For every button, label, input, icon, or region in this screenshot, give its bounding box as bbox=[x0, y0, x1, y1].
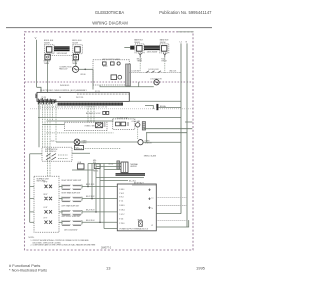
broil left lower terminal label bbox=[44, 61, 50, 65]
svg-text:4 Y-4: 4 Y-4 bbox=[119, 200, 123, 202]
bake right terminal square bbox=[161, 46, 167, 52]
surface switch box title bbox=[37, 177, 49, 182]
relay box small A bbox=[103, 111, 106, 114]
svg-text:1 2 3 4 5 6 7 8 9 10 11 12 13: 1 2 3 4 5 6 7 8 9 10 11 12 13 14 15 16 1… bbox=[38, 107, 107, 109]
dashed chassis border bbox=[25, 32, 194, 250]
svg-text:2600W: 2600W bbox=[134, 42, 140, 44]
row 1 left stub bbox=[30, 186, 34, 188]
row 2 element coil lower bbox=[62, 201, 81, 202]
bake right Y terminal bbox=[163, 53, 166, 58]
bake left Y terminal bbox=[139, 53, 142, 58]
row 1 feed wire bbox=[59, 186, 62, 188]
svg-text:BK-22 R-32: BK-22 R-32 bbox=[86, 196, 94, 198]
svg-text:LF 8": LF 8" bbox=[44, 217, 48, 219]
dashed wire row bbox=[30, 108, 193, 110]
broil lower wire dashed bbox=[48, 55, 73, 57]
svg-text:6 OR-6: 6 OR-6 bbox=[119, 209, 125, 211]
svg-text:N.O. COM N.C.: N.O. COM N.C. bbox=[45, 151, 57, 153]
clock connector bar P1 bbox=[126, 64, 131, 86]
svg-text:BK-1 W-2: BK-1 W-2 bbox=[129, 181, 136, 183]
header rule bbox=[6, 27, 212, 29]
svg-text:OVEN LT SW: OVEN LT SW bbox=[84, 125, 95, 127]
row 1 out wire bbox=[82, 186, 117, 188]
wire drop g bbox=[55, 102, 57, 142]
oven sensor label bbox=[145, 140, 153, 144]
top right solid border segment bbox=[178, 31, 194, 33]
TOD thermal switch bbox=[75, 146, 84, 150]
door switch title bbox=[45, 149, 58, 153]
door lock switch line bbox=[129, 72, 181, 74]
svg-text:LEFT FRONT SURF UNIT: LEFT FRONT SURF UNIT bbox=[62, 216, 81, 218]
wire door sw solid bbox=[72, 152, 90, 154]
terminal symbols column bbox=[148, 189, 150, 210]
wire to MDL bbox=[72, 169, 94, 171]
svg-text:BK W R BU Y: BK W R BU Y bbox=[134, 182, 145, 184]
oven lamp label bbox=[82, 140, 88, 144]
terminal strip label bbox=[96, 177, 144, 179]
broil left terminal block (dashed) bbox=[45, 45, 55, 54]
surface switch dashed box bbox=[34, 176, 59, 232]
wire tb dashed 3 bbox=[156, 219, 188, 221]
svg-text:UNLOCK: UNLOCK bbox=[169, 71, 177, 73]
junction row 3 bbox=[95, 211, 97, 213]
bake feed connector (dark) bbox=[130, 46, 134, 50]
svg-text:3 R-3: 3 R-3 bbox=[119, 197, 123, 199]
wire P2 branch bbox=[145, 106, 153, 110]
svg-text:7 GY-7: 7 GY-7 bbox=[119, 214, 124, 216]
wire bottom collector bbox=[104, 228, 117, 230]
door switch contact 1 bbox=[46, 154, 56, 157]
row 3 out wire bbox=[82, 211, 117, 213]
row 4 element coil lower bbox=[62, 224, 81, 225]
svg-text:V: V bbox=[35, 36, 37, 40]
svg-text:P8: P8 bbox=[59, 97, 61, 99]
terminal strip dark bar bbox=[116, 173, 146, 176]
door switch dashed box bbox=[42, 147, 72, 161]
wire rail 4 bbox=[146, 132, 187, 134]
svg-text:BK-24 R-34: BK-24 R-34 bbox=[86, 220, 94, 222]
wire sensor to L2 bbox=[143, 141, 181, 143]
broil right lower terminal label bbox=[72, 61, 78, 65]
wire L2 vertical bbox=[180, 43, 182, 213]
wire riser 2 bbox=[91, 164, 93, 199]
svg-text:3400W: 3400W bbox=[44, 42, 50, 44]
clock lower coil bbox=[118, 75, 122, 79]
row 1 element coil lower bbox=[62, 188, 81, 189]
TOD2 vertical box bbox=[121, 162, 128, 173]
box A switch rect bbox=[96, 123, 106, 128]
terminal block top comb bbox=[133, 184, 155, 186]
broil left lower terminal bbox=[45, 54, 50, 59]
TOD2 label bbox=[130, 163, 138, 168]
svg-text:304577-2: 304577-2 bbox=[101, 246, 112, 249]
broil left terminal square bbox=[46, 47, 52, 53]
svg-text:* Non-Illustrated Parts: * Non-Illustrated Parts bbox=[9, 268, 47, 273]
svg-text:NOTE:: NOTE: bbox=[29, 237, 35, 239]
fuse box with X bbox=[138, 219, 143, 226]
bake feed wire bbox=[124, 47, 130, 49]
row 4 split stubs bbox=[62, 220, 82, 224]
door switch contact 2 bbox=[46, 157, 56, 160]
wire bake left drop bbox=[139, 58, 141, 73]
bake element heating bar bbox=[144, 46, 160, 51]
relay box small B bbox=[106, 111, 109, 114]
svg-text:ELECTRONIC OVEN CONTROL (EOC): ELECTRONIC OVEN CONTROL (EOC) ASSEMBLY bbox=[40, 89, 87, 92]
svg-text:RR 8": RR 8" bbox=[44, 194, 49, 196]
cool fan circle bbox=[132, 120, 141, 127]
wire main rail 2 bbox=[47, 120, 114, 122]
svg-text:HI-LIMIT STAT: HI-LIMIT STAT bbox=[117, 116, 128, 119]
convection fan motor bbox=[72, 66, 78, 72]
svg-text:L2: L2 bbox=[180, 41, 183, 43]
relay RL3 bbox=[116, 122, 121, 126]
row 2 split stubs bbox=[62, 197, 82, 201]
svg-text:WIRING DIAGRAM: WIRING DIAGRAM bbox=[92, 21, 128, 26]
clock relay K1 bbox=[103, 62, 107, 65]
left bus vertical bbox=[29, 154, 31, 223]
svg-text:RIGHT FRONT SURF UNIT: RIGHT FRONT SURF UNIT bbox=[62, 180, 82, 182]
wire tb solid L2 bbox=[156, 213, 181, 215]
wire clock drop bbox=[92, 69, 94, 89]
wire riser 3 bbox=[95, 164, 97, 212]
svg-text:BK-21 R-31: BK-21 R-31 bbox=[86, 184, 94, 186]
svg-text:RF 8": RF 8" bbox=[44, 182, 48, 184]
junction dot bbox=[84, 69, 86, 71]
svg-text:P4 P2 P6: P4 P2 P6 bbox=[76, 97, 83, 99]
cool fan connector bbox=[142, 122, 145, 130]
convection fan label bbox=[59, 66, 72, 70]
row 2 feed wire bbox=[59, 198, 62, 200]
wire tb solid N bbox=[156, 220, 188, 227]
svg-text:LATCH SWITCH ASM: LATCH SWITCH ASM bbox=[102, 58, 120, 61]
relay dashed box B bbox=[113, 119, 135, 129]
row 4 out wire bbox=[82, 221, 117, 223]
row 3 element coil upper bbox=[62, 210, 81, 211]
broil right terminal block (dashed) bbox=[73, 45, 83, 54]
section divider dashed bbox=[25, 81, 194, 83]
svg-text:TERM: TERM bbox=[44, 63, 50, 65]
svg-text:LOCK SW: LOCK SW bbox=[132, 71, 140, 73]
svg-text:2 W-2: 2 W-2 bbox=[119, 193, 124, 195]
svg-text:5 BU-5: 5 BU-5 bbox=[119, 205, 124, 207]
wire riser 1 bbox=[87, 164, 89, 187]
wire drop f bbox=[52, 102, 54, 121]
svg-text:K1 K2: K1 K2 bbox=[103, 66, 107, 68]
surface switch SW3 contacts bbox=[45, 210, 53, 213]
relay contacts mark bbox=[127, 123, 129, 125]
wire V elbow bbox=[37, 87, 41, 92]
surface switch SW1 contacts bbox=[45, 185, 53, 188]
junction row 2 bbox=[91, 198, 93, 200]
wire EOC corner right bbox=[129, 100, 181, 102]
relay box C bbox=[78, 162, 85, 169]
broil element left terminal label bbox=[44, 40, 54, 44]
left bus top wire bbox=[30, 153, 42, 155]
wire C drop bbox=[146, 133, 148, 143]
bake left terminal block (dashed) bbox=[135, 44, 144, 53]
svg-text:LIMITER: LIMITER bbox=[130, 166, 137, 168]
svg-text:LR 8": LR 8" bbox=[44, 207, 48, 209]
EOC left edge connector bbox=[36, 94, 37, 98]
surface switch SW2 contacts bbox=[45, 197, 53, 200]
EOC top dotted strip bbox=[77, 93, 129, 95]
svg-text:Publication No. 5995441147: Publication No. 5995441147 bbox=[159, 10, 212, 15]
bake right terminal block (dashed) bbox=[160, 44, 169, 53]
junction row 1 bbox=[87, 186, 89, 188]
connector bar into thermal limiter bbox=[109, 161, 120, 169]
oven sensor bbox=[138, 140, 143, 145]
svg-text:LIGHT: LIGHT bbox=[82, 143, 87, 145]
svg-text:2600W: 2600W bbox=[160, 42, 166, 44]
wire tb dashed 1 bbox=[156, 197, 187, 199]
svg-text:SENSOR: SENSOR bbox=[145, 143, 153, 145]
svg-text:GLEB30T8CBA: GLEB30T8CBA bbox=[95, 10, 125, 15]
wire border stub bbox=[185, 121, 192, 123]
wire V vertical bbox=[36, 40, 38, 88]
svg-text:G-44: G-44 bbox=[51, 141, 55, 143]
row 4 left stub bbox=[30, 221, 34, 223]
wire riser 5 bbox=[103, 164, 105, 229]
row 3 feed wire bbox=[59, 211, 62, 213]
svg-text:BK-23 R-33: BK-23 R-33 bbox=[86, 209, 94, 211]
row 3 left stub bbox=[30, 211, 34, 213]
svg-text:N: N bbox=[152, 208, 154, 210]
bake left terminal square bbox=[137, 46, 143, 52]
connector strip P1 (dense dark) bbox=[58, 103, 124, 106]
clock lower relay bbox=[111, 75, 117, 80]
svg-text:L1: L1 bbox=[152, 197, 154, 199]
row 3 split stubs bbox=[62, 210, 82, 214]
wire motor riser bbox=[138, 82, 140, 87]
relay RL4 bbox=[121, 122, 126, 126]
wire drop b bbox=[42, 102, 44, 147]
svg-text:RIGHT REAR SURF UNIT: RIGHT REAR SURF UNIT bbox=[62, 192, 81, 195]
clock relay K2 bbox=[111, 62, 115, 65]
door lock switch contacts bbox=[146, 71, 161, 73]
svg-text:FAN 120V: FAN 120V bbox=[59, 68, 68, 71]
svg-text:TERM: TERM bbox=[72, 63, 78, 65]
wire bend top 3 bbox=[104, 169, 121, 171]
svg-text:P7 P1: P7 P1 bbox=[95, 91, 100, 93]
svg-text:N: N bbox=[186, 41, 188, 43]
wire riser 4 bbox=[99, 164, 101, 223]
wire broil lower drop bbox=[47, 60, 49, 93]
row 1 element coil upper bbox=[62, 185, 81, 186]
wire broil right drop to fan bbox=[75, 60, 77, 66]
broil element heating bar bbox=[54, 46, 70, 51]
surface switch SW4 contacts bbox=[45, 221, 53, 224]
svg-text:POWER SUPPLY TERMINAL BLOCK: POWER SUPPLY TERMINAL BLOCK bbox=[120, 228, 149, 231]
broil right terminal square bbox=[75, 47, 81, 53]
broil right lower terminal bbox=[73, 54, 78, 59]
junction row 4 bbox=[99, 222, 101, 224]
row 2 out wire bbox=[82, 198, 117, 200]
svg-text:TERM: TERM bbox=[161, 61, 167, 63]
dotted rail under box A bbox=[47, 132, 114, 134]
door switch wire stubs bbox=[58, 155, 68, 159]
wire drop d bbox=[47, 102, 49, 176]
wire fan to clock bbox=[79, 68, 93, 70]
wire rail 3 bbox=[144, 128, 193, 130]
bake right terminal text bbox=[161, 58, 167, 62]
op board: electronic oven control box U1 bbox=[37, 92, 129, 101]
svg-text:LEFT REAR SURF UNIT: LEFT REAR SURF UNIT bbox=[62, 205, 80, 208]
bake element right terminal label bbox=[160, 39, 169, 44]
wire door sw dotted bbox=[74, 148, 121, 150]
MDL box bbox=[94, 164, 100, 169]
wire drop j bbox=[93, 106, 95, 122]
wire drop i bbox=[90, 106, 92, 122]
row 4 element coil upper bbox=[62, 220, 81, 221]
row 3 element coil lower bbox=[62, 214, 81, 215]
P2 connector mark bbox=[156, 104, 158, 110]
svg-text:2. COMPONENTS ARE ON THE UPPER: 2. COMPONENTS ARE ON THE UPPER CONSOLE I… bbox=[31, 244, 97, 247]
oven light dashed box A bbox=[65, 122, 108, 130]
wire N vertical bbox=[186, 43, 188, 227]
terminal block box bbox=[117, 184, 156, 231]
wire drop c bbox=[44, 102, 46, 147]
wire tb dashed 2 bbox=[156, 205, 187, 207]
svg-text:TERM: TERM bbox=[137, 61, 143, 63]
wire main rail 1 bbox=[38, 117, 181, 119]
svg-text:L2: L2 bbox=[151, 225, 153, 227]
EOC pin barcode cluster bbox=[38, 98, 56, 104]
svg-text:OR-30: OR-30 bbox=[80, 74, 85, 76]
clock dashed box bbox=[93, 60, 129, 85]
bake left terminal text bbox=[137, 58, 143, 62]
bake element left terminal label bbox=[134, 39, 143, 44]
wire P2 to L2 bbox=[159, 106, 182, 108]
svg-text:9 TN-9: 9 TN-9 bbox=[119, 223, 124, 225]
svg-text:240V 2600W: 240V 2600W bbox=[147, 51, 158, 53]
wire bend top 2 bbox=[96, 166, 121, 168]
wire drop a bbox=[38, 102, 40, 147]
svg-text:240V 1200/2500W: 240V 1200/2500W bbox=[64, 229, 78, 231]
svg-text:1995: 1995 bbox=[196, 266, 206, 271]
wire lamp to sensor bbox=[80, 141, 138, 143]
wire bake right drop bbox=[164, 58, 166, 73]
wire bend top 1 bbox=[88, 163, 121, 165]
svg-text:COOL FAN: COOL FAN bbox=[132, 120, 141, 123]
wire lamp left bbox=[56, 141, 74, 143]
MDL label bbox=[93, 160, 97, 164]
svg-text:13: 13 bbox=[106, 266, 111, 271]
wire rail 2b bbox=[43, 124, 65, 126]
svg-text:1 BK-1: 1 BK-1 bbox=[119, 189, 124, 191]
row 4 feed wire bbox=[59, 221, 62, 223]
svg-text:BK-52: BK-52 bbox=[109, 164, 114, 166]
svg-text:240V 3400W: 240V 3400W bbox=[57, 53, 68, 55]
row 1 split stubs bbox=[62, 185, 82, 189]
svg-text:3400W: 3400W bbox=[72, 42, 78, 44]
dotted drop from fan bbox=[137, 127, 139, 140]
oven lamp bbox=[74, 139, 80, 145]
broil element right terminal label bbox=[72, 40, 82, 44]
svg-text:8 V-8: 8 V-8 bbox=[119, 218, 123, 220]
wire drop h bbox=[87, 106, 89, 122]
wire clock to motor bbox=[100, 85, 154, 87]
clock coil bbox=[117, 62, 120, 65]
svg-text:SHIELD GLASS: SHIELD GLASS bbox=[144, 155, 157, 158]
door lock motor bbox=[154, 80, 159, 85]
wire drop e bbox=[49, 102, 51, 176]
row 2 left stub bbox=[30, 198, 34, 200]
row 2 element coil upper bbox=[62, 197, 81, 198]
svg-text:W-36 BK-35: W-36 BK-35 bbox=[60, 85, 69, 87]
